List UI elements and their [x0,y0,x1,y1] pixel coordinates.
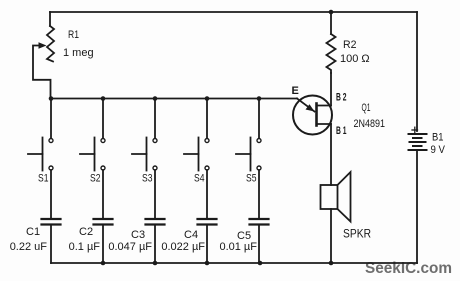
svg-text:R2: R2 [343,39,357,51]
svg-text:0.22 uF: 0.22 uF [10,241,48,253]
potentiometer R1 [33,12,54,99]
svg-text:B1: B1 [432,132,444,144]
capacitor C4 [198,219,217,263]
svg-text:0.022 µF: 0.022 µF [161,241,205,253]
label R1 value [63,29,94,59]
svg-text:E: E [292,85,299,97]
transistor Q1 (UJT 2N4891) [293,96,332,135]
svg-text:SPKR: SPKR [343,226,371,240]
node S2 rail [101,96,106,101]
svg-text:S3: S3 [142,173,153,185]
node C4 ground [205,261,210,266]
svg-text:S4: S4 [194,173,205,185]
wire top supply rail [50,11,417,13]
switch S2 [80,99,105,219]
node S3 rail [153,96,158,101]
node S4 rail [205,96,210,101]
svg-text:9 V: 9 V [431,144,446,156]
capacitor C2 [94,219,113,263]
svg-text:C3: C3 [131,229,145,241]
svg-text:C4: C4 [184,229,198,241]
svg-text:Q1: Q1 [362,102,371,114]
capacitor C5 [250,219,269,263]
svg-text:2N4891: 2N4891 [354,118,386,130]
node S5 rail [257,96,262,101]
svg-text:B 1: B 1 [336,125,347,137]
switch S3 [132,99,157,219]
speaker SPKR [321,172,351,222]
switch S5 [236,99,261,219]
svg-text:R1: R1 [68,29,79,41]
node S1 rail [49,96,54,101]
svg-text:C2: C2 [79,226,93,238]
label R2 value [340,39,370,65]
svg-text:B 2: B 2 [336,92,347,104]
svg-text:S2: S2 [90,173,101,185]
svg-text:0.047 µF: 0.047 µF [108,241,152,253]
capacitor C1 [42,219,61,263]
resistor R2 [327,12,336,106]
svg-text:C1: C1 [26,226,40,238]
svg-text:0.1 µF: 0.1 µF [69,241,101,253]
svg-text:0.01 µF: 0.01 µF [219,241,257,253]
svg-text:S5: S5 [246,173,257,185]
battery B1 [409,12,427,263]
capacitor C3 [146,219,165,263]
wire switch bus rail [51,98,297,100]
node C2 ground [101,261,106,266]
svg-text:S1: S1 [38,173,49,185]
node C3 ground [153,261,158,266]
svg-text:1 meg: 1 meg [63,47,94,59]
wire speaker to bottom rail [330,209,332,263]
switch S4 [184,99,209,219]
node C5 ground [258,261,263,266]
node speaker ground [329,261,334,266]
svg-text:100 Ω: 100 Ω [340,53,370,65]
wire B1 to speaker [330,124,332,185]
node top rail / R2 junction [329,10,334,15]
switch S1 [28,99,53,219]
wire bottom ground rail [51,262,417,264]
